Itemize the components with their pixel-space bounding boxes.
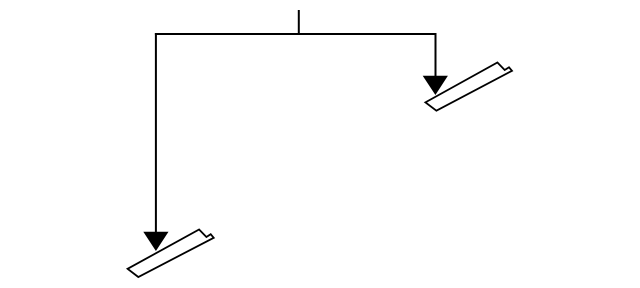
arrowhead: right arrow xyxy=(423,76,448,95)
wire: horizontal bus xyxy=(155,33,437,35)
card 2: right slanted board with tab xyxy=(425,63,512,111)
card 1: left slanted board with tab xyxy=(128,230,214,278)
wire: right drop xyxy=(435,33,437,77)
wire: left drop xyxy=(155,33,157,233)
arrowhead: left arrow xyxy=(143,232,168,251)
wire: top stub xyxy=(298,10,300,34)
